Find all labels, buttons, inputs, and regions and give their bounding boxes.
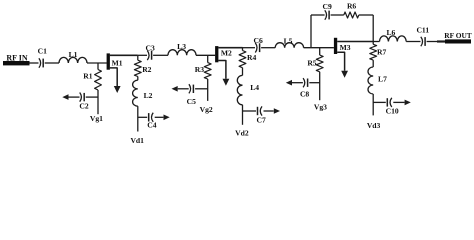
transistor M3: [334, 38, 337, 54]
svg-text:Vg3: Vg3: [314, 102, 327, 111]
svg-text:L5: L5: [284, 36, 293, 45]
wire: feedback tap up from node G3: [310, 15, 312, 48]
svg-text:C9: C9: [323, 2, 332, 11]
transistor M2: [215, 46, 218, 62]
wire: R7 to L7: [372, 60, 374, 67]
svg-text:R4: R4: [247, 53, 256, 62]
transistor M1: [107, 53, 110, 69]
svg-text:L1: L1: [69, 50, 78, 59]
wire: M3 drain to node D3: [337, 41, 373, 43]
svg-text:C1: C1: [38, 47, 47, 56]
svg-text:M1: M1: [112, 58, 123, 67]
port RF IN: [3, 61, 30, 65]
svg-text:M3: M3: [340, 43, 351, 52]
wire: node D1 to C3: [138, 54, 147, 56]
resistor R7: [372, 42, 374, 45]
svg-text:C6: C6: [254, 36, 263, 45]
wire: R6 to feedback right corner: [359, 14, 373, 16]
svg-text:C11: C11: [416, 25, 429, 34]
svg-text:R1: R1: [83, 71, 92, 80]
inductor L3: [168, 50, 196, 56]
ground arrow M1 source: [114, 86, 121, 93]
svg-text:C2: C2: [79, 102, 88, 111]
wire: R5 to Vg3 stub: [319, 72, 321, 100]
svg-text:C8: C8: [300, 89, 309, 98]
svg-text:L7: L7: [378, 75, 387, 84]
svg-text:L3: L3: [177, 42, 186, 51]
svg-text:M2: M2: [221, 49, 232, 58]
inductor L1: [59, 57, 87, 63]
wire: C9 to R6: [331, 14, 344, 16]
resistor R6: [344, 12, 359, 18]
port RF OUT: [445, 39, 471, 43]
svg-text:Vd3: Vd3: [367, 121, 381, 130]
capacitor C11: [421, 37, 423, 47]
wire: feedback top left segment: [311, 14, 325, 16]
wire: M3 source to ground arrow: [337, 52, 344, 71]
wire: C11 to RF OUT: [427, 41, 437, 43]
inductor L6: [380, 36, 407, 42]
bias arrow Vg2 feed: [172, 86, 178, 92]
bias arrow Vd2 feed: [274, 108, 280, 114]
svg-text:Vg1: Vg1: [90, 114, 103, 123]
wire: L1 to M1 gate, node G1: [87, 62, 107, 64]
wire: L2 to Vd1 stub: [137, 106, 139, 131]
capacitor C4: [138, 116, 147, 118]
svg-text:R3: R3: [195, 65, 204, 74]
svg-text:Vd2: Vd2: [235, 129, 249, 138]
svg-text:C4: C4: [147, 121, 156, 130]
wire: M1 source to ground arrow: [110, 68, 117, 86]
wire: RF IN to C1: [30, 62, 39, 64]
inductor L7: [368, 67, 373, 94]
wire: L5 to M3 gate, node G3: [304, 47, 334, 49]
resistor R2: [137, 55, 139, 60]
capacitor C5: [195, 88, 208, 90]
svg-text:Vg2: Vg2: [200, 105, 213, 114]
svg-text:C7: C7: [257, 115, 266, 124]
capacitor C6: [255, 43, 257, 53]
wire: node D3 to L6: [373, 41, 379, 43]
svg-text:R5: R5: [307, 59, 316, 68]
inductor L4: [237, 75, 242, 104]
capacitor C2: [86, 96, 98, 98]
wire: R2 to L2: [137, 77, 139, 81]
capacitor C1: [39, 58, 41, 68]
inductor L2: [133, 80, 138, 106]
wire: R3 to Vg2 stub: [207, 79, 209, 101]
wire: C3 to L3: [153, 54, 168, 56]
resistor R3: [207, 55, 209, 62]
inductor L5: [275, 43, 303, 48]
svg-text:Vd1: Vd1: [130, 136, 144, 145]
ground arrow M3 source: [341, 71, 348, 78]
svg-text:R7: R7: [377, 47, 386, 56]
wire: R1 to Vg1 stub: [97, 90, 99, 114]
wire: L3 to M2 gate, node G2: [196, 54, 215, 56]
svg-text:L6: L6: [386, 28, 395, 37]
svg-text:RF IN: RF IN: [6, 53, 27, 62]
svg-text:C5: C5: [187, 97, 196, 106]
capacitor C9: [325, 10, 327, 20]
wire: node D2 to C6: [243, 47, 256, 49]
bias arrow Vd1 feed: [164, 115, 170, 121]
capacitor C7: [243, 110, 257, 112]
svg-text:R2: R2: [142, 65, 151, 74]
wire: feedback down to node D3: [372, 15, 374, 42]
wire: L4 to Vd2 stub: [242, 105, 244, 125]
wire: M2 source to ground arrow: [218, 61, 226, 79]
resistor R4: [242, 48, 244, 51]
svg-text:R6: R6: [347, 2, 356, 11]
svg-text:L2: L2: [144, 91, 153, 100]
svg-text:C3: C3: [146, 43, 155, 52]
svg-text:C10: C10: [386, 107, 399, 116]
wire: L7 to Vd3 stub: [372, 94, 374, 115]
capacitor C8: [309, 82, 319, 84]
wire: M1 drain to node D1: [110, 54, 138, 56]
wire: C6 to L5: [261, 47, 275, 49]
wire: M2 drain to node D2: [218, 47, 242, 49]
resistor R1: [97, 63, 99, 70]
wire: C1 to L1: [45, 62, 59, 64]
ground arrow M2 source: [223, 79, 230, 86]
bias arrow Vd3 feed: [405, 100, 411, 106]
capacitor C10: [373, 101, 386, 103]
resistor R5: [319, 48, 321, 55]
bias arrow Vg3 feed: [286, 80, 292, 86]
svg-text:RF OUT: RF OUT: [444, 31, 472, 40]
bias arrow Vg1 feed: [62, 94, 68, 100]
wire: R4 to L4: [242, 68, 244, 76]
wire: L6 to C11: [406, 41, 420, 43]
capacitor C3: [147, 51, 149, 61]
svg-text:L4: L4: [250, 83, 259, 92]
